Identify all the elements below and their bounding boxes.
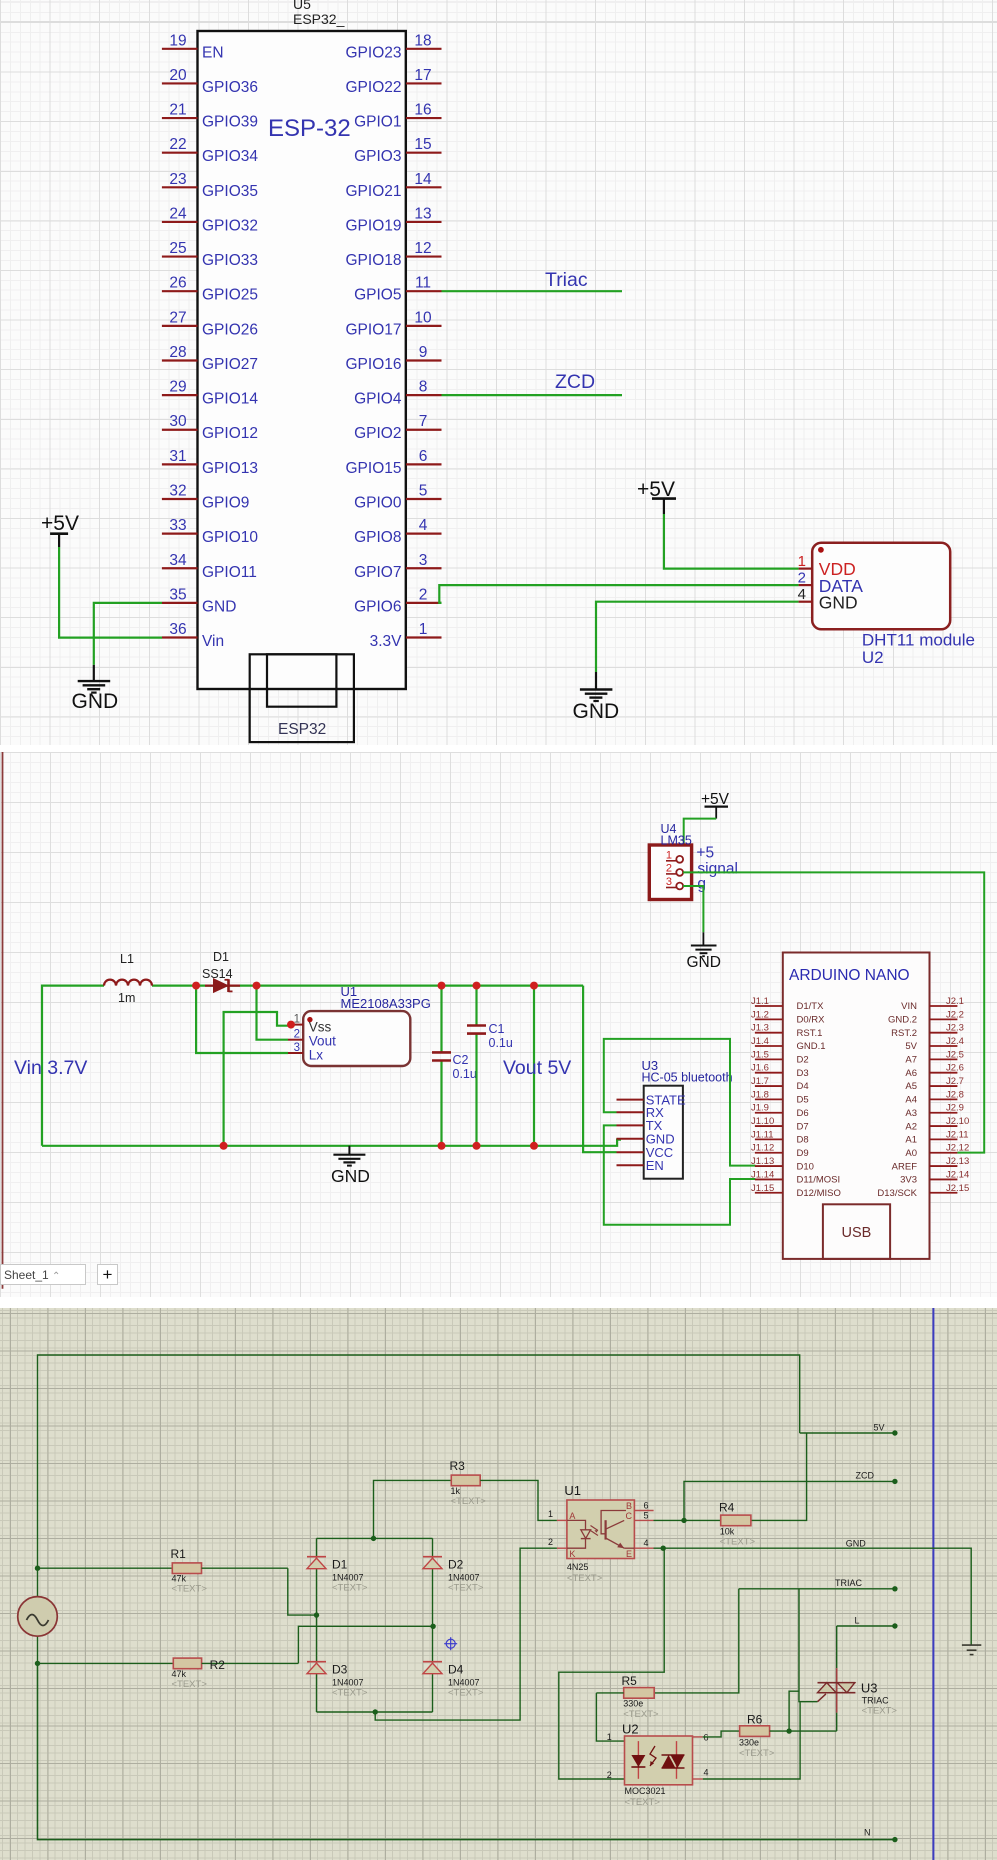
svg-text:GND: GND xyxy=(202,598,236,615)
svg-text:GPIO39: GPIO39 xyxy=(202,114,258,131)
pin 2 (GPIO6) xyxy=(354,586,441,615)
U4 value LM35 xyxy=(661,834,692,848)
sheet border line (blue, right) xyxy=(932,1308,934,1860)
wire pin 35 GND to ground xyxy=(94,603,162,665)
wire +5V to pin 36 Vin xyxy=(59,547,162,638)
svg-text:EN: EN xyxy=(646,1158,664,1173)
U1 pin 2 K xyxy=(548,1537,575,1559)
junction dot xyxy=(253,982,261,990)
svg-text:J1.8: J1.8 xyxy=(751,1089,769,1100)
wire bridge bottom xyxy=(317,1711,433,1713)
chip value ESP32_ xyxy=(293,11,345,27)
arduino pin J1.11 (D8) xyxy=(751,1129,809,1145)
pin 5 (GPIO0) xyxy=(354,482,441,511)
U2 internal LED xyxy=(631,1741,645,1779)
svg-text:17: 17 xyxy=(414,67,431,84)
arduino pin J2.4 (5V) xyxy=(905,1036,964,1052)
power symbol +5V (left) xyxy=(41,512,79,547)
svg-text:GPIO11: GPIO11 xyxy=(202,564,257,581)
DHT11 pin 1 VDD xyxy=(798,553,856,579)
DHT11 module U2 body xyxy=(812,543,950,630)
svg-text:25: 25 xyxy=(169,240,186,257)
wire R1 to bridge node xyxy=(288,1568,317,1615)
svg-text:1m: 1m xyxy=(118,991,135,1005)
U2 pin 2 xyxy=(607,1770,612,1780)
svg-text:A6: A6 xyxy=(905,1068,917,1079)
svg-text:J1.10: J1.10 xyxy=(751,1116,774,1127)
svg-text:VIN: VIN xyxy=(901,1001,917,1012)
U2 pin 6 xyxy=(693,1733,709,1743)
wire U1 Vout to output rail xyxy=(257,986,289,1040)
net label ZCD xyxy=(856,1471,875,1481)
bluetooth U3 HC-05 body xyxy=(644,1086,683,1179)
junction dot xyxy=(438,982,446,990)
svg-text:RST.1: RST.1 xyxy=(797,1028,823,1039)
svg-text:D3: D3 xyxy=(332,1663,348,1677)
wire GND net from U1 E xyxy=(654,1548,972,1645)
U4 pin 3 xyxy=(666,876,683,889)
svg-text:LM35: LM35 xyxy=(661,834,692,848)
svg-text:<TEXT>: <TEXT> xyxy=(567,1573,603,1584)
U1 pin 4 E xyxy=(626,1538,654,1559)
origin marker xyxy=(444,1637,457,1650)
pin 32 (GPIO9) xyxy=(162,482,249,511)
svg-text:3.3V: 3.3V xyxy=(370,633,403,650)
svg-text:J2.4: J2.4 xyxy=(946,1036,964,1047)
svg-text:<TEXT>: <TEXT> xyxy=(332,1688,368,1699)
svg-text:6: 6 xyxy=(644,1500,649,1510)
ground symbol (DHT11) xyxy=(573,672,620,723)
svg-text:ME2108A33PG: ME2108A33PG xyxy=(341,996,431,1011)
pin 34 (GPIO11) xyxy=(162,552,257,581)
svg-text:GND: GND xyxy=(573,700,620,723)
svg-text:GPIO3: GPIO3 xyxy=(354,148,401,165)
svg-text:Vout 5V: Vout 5V xyxy=(503,1057,571,1079)
diode D3 1N4007 xyxy=(307,1662,368,1699)
svg-text:28: 28 xyxy=(169,344,186,361)
U3 value TRIAC xyxy=(862,1696,890,1706)
svg-text:1N4007: 1N4007 xyxy=(332,1573,364,1583)
svg-text:23: 23 xyxy=(169,171,186,188)
pin 21 (GPIO39) xyxy=(162,102,258,131)
svg-text:J1.1: J1.1 xyxy=(751,996,769,1007)
svg-text:29: 29 xyxy=(169,379,186,396)
net label TRIAC xyxy=(835,1578,863,1588)
pin 27 (GPIO26) xyxy=(162,309,258,338)
svg-text:36: 36 xyxy=(169,621,186,638)
svg-text:U2: U2 xyxy=(622,1722,639,1737)
op-amp U5 ESP32 chip body xyxy=(198,31,406,689)
junction dot xyxy=(661,1546,666,1551)
U4 reference label xyxy=(661,822,677,836)
svg-text:ESP32_: ESP32_ xyxy=(293,11,345,27)
arduino pin J1.2 (D0/RX) xyxy=(751,1009,825,1025)
pin 20 (GPIO36) xyxy=(162,67,258,96)
svg-text:4N25: 4N25 xyxy=(567,1562,589,1572)
svg-text:GPIO36: GPIO36 xyxy=(202,79,258,96)
svg-text:GPIO32: GPIO32 xyxy=(202,217,258,234)
AC source V1 xyxy=(18,1568,58,1663)
svg-text:<TEXT>: <TEXT> xyxy=(172,1679,208,1690)
svg-text:D6: D6 xyxy=(797,1108,809,1119)
arduino pin J1.8 (D5) xyxy=(751,1089,809,1105)
svg-text:19: 19 xyxy=(169,32,186,49)
svg-text:1k: 1k xyxy=(451,1486,461,1496)
wire U1 C node to R4 xyxy=(654,1519,721,1521)
pin 19 (EN) xyxy=(162,32,224,61)
svg-text:2: 2 xyxy=(798,570,806,587)
wire DATA from pin 2 GPIO6 to DHT11 xyxy=(439,585,798,603)
DHT11 pin 4 GND xyxy=(798,586,858,612)
arduino USB box xyxy=(823,1204,890,1259)
junction dot xyxy=(287,1021,295,1029)
arduino pin J1.7 (D4) xyxy=(751,1076,809,1092)
svg-text:A1: A1 xyxy=(905,1135,917,1146)
svg-text:GPIO14: GPIO14 xyxy=(202,391,258,408)
svg-text:<TEXT>: <TEXT> xyxy=(172,1584,208,1595)
wire gate net vertical xyxy=(798,1589,800,1703)
svg-text:<TEXT>: <TEXT> xyxy=(448,1583,484,1594)
chip label ESP-32 xyxy=(268,115,351,142)
junction dot xyxy=(892,1623,897,1628)
label DHT11 module xyxy=(862,631,975,650)
svg-text:R3: R3 xyxy=(450,1459,466,1473)
wire gate to triac xyxy=(799,1701,818,1703)
svg-text:GND: GND xyxy=(72,690,119,713)
svg-text:<TEXT>: <TEXT> xyxy=(448,1688,484,1699)
svg-text:J2.3: J2.3 xyxy=(946,1023,964,1034)
wire HC-05 TX loop to D11 xyxy=(604,1125,756,1224)
U3 pin GND xyxy=(617,1132,675,1147)
svg-text:GPIO13: GPIO13 xyxy=(202,460,258,477)
svg-text:1: 1 xyxy=(548,1509,553,1519)
svg-text:26: 26 xyxy=(169,275,186,292)
capacitor C1 xyxy=(467,986,513,1146)
svg-text:J1.9: J1.9 xyxy=(751,1103,769,1114)
U4 pin 1 xyxy=(666,849,683,862)
arduino pin J2.10 (A2) xyxy=(905,1116,969,1132)
junction dot xyxy=(314,1612,319,1617)
svg-text:ESP-32: ESP-32 xyxy=(268,115,351,142)
svg-text:8: 8 xyxy=(419,379,428,396)
svg-text:J2.15: J2.15 xyxy=(946,1183,969,1194)
net label 5V xyxy=(874,1423,885,1433)
svg-text:J2.13: J2.13 xyxy=(946,1156,969,1167)
resistor R1 xyxy=(38,1547,288,1595)
arduino pin J1.5 (D2) xyxy=(751,1049,809,1065)
wire R5 to U2 pin 1 xyxy=(596,1693,624,1741)
svg-text:22: 22 xyxy=(169,136,186,153)
svg-text:GPIO6: GPIO6 xyxy=(354,598,401,615)
net label g xyxy=(697,876,706,893)
junction dot xyxy=(35,1566,40,1571)
svg-text:Vss: Vss xyxy=(309,1020,332,1035)
U1 value 4N25 xyxy=(567,1562,589,1572)
triac U3 xyxy=(818,1668,856,1713)
U2 internal triac xyxy=(662,1741,685,1779)
wire DHT11 GND to ground xyxy=(596,602,799,672)
junction dot xyxy=(681,1518,686,1523)
svg-text:C: C xyxy=(626,1511,633,1521)
wire R3 to U1 pin 1 xyxy=(480,1480,557,1520)
ground symbol (buck) xyxy=(331,1146,370,1186)
pin 16 (GPIO1) xyxy=(354,102,441,131)
svg-text:1N4007: 1N4007 xyxy=(332,1678,364,1688)
wire R2 to bridge node xyxy=(298,1626,433,1663)
svg-text:<TEXT>: <TEXT> xyxy=(739,1748,775,1759)
pin 35 (GND) xyxy=(162,586,237,615)
U2 pin 4 xyxy=(693,1768,709,1780)
svg-text:R2: R2 xyxy=(210,1658,226,1672)
svg-text:J1.3: J1.3 xyxy=(751,1023,769,1034)
resistor R4 xyxy=(719,1501,756,1548)
svg-text:Vin 3.7V: Vin 3.7V xyxy=(14,1057,87,1079)
svg-text:5: 5 xyxy=(419,482,428,499)
svg-text:D7: D7 xyxy=(797,1121,809,1132)
svg-text:<TEXT>: <TEXT> xyxy=(451,1496,487,1507)
svg-text:C1: C1 xyxy=(489,1022,505,1036)
svg-text:A4: A4 xyxy=(905,1095,917,1106)
svg-text:2: 2 xyxy=(419,586,428,603)
wire L to triac T2 xyxy=(836,1626,838,1668)
svg-text:g: g xyxy=(697,876,706,893)
U3 pin VCC xyxy=(617,1145,674,1160)
svg-text:2: 2 xyxy=(607,1770,612,1780)
svg-text:J1.15: J1.15 xyxy=(751,1183,774,1194)
arduino pin J2.2 (GND.2) xyxy=(888,1009,964,1025)
pin 10 (GPIO17) xyxy=(346,309,442,338)
svg-text:GND: GND xyxy=(331,1166,370,1186)
svg-text:15: 15 xyxy=(414,136,431,153)
svg-text:USB: USB xyxy=(842,1225,872,1241)
net label +5 xyxy=(696,845,714,862)
pin 8 (GPIO4) xyxy=(354,379,441,408)
svg-text:3: 3 xyxy=(294,1042,300,1054)
wire U1 Vss to ground rail xyxy=(224,1012,291,1146)
pin 12 (GPIO18) xyxy=(346,240,442,269)
pin 3 (GPIO7) xyxy=(354,552,441,581)
diode D1 SS14 xyxy=(202,950,240,992)
svg-text:ZCD: ZCD xyxy=(555,371,595,393)
svg-text:1N4007: 1N4007 xyxy=(448,1573,480,1583)
wire N net bottom rail xyxy=(38,1663,895,1839)
svg-text:330e: 330e xyxy=(623,1699,643,1709)
U1 pin 1 Vss xyxy=(291,1014,332,1035)
svg-text:J2.1: J2.1 xyxy=(946,996,964,1007)
svg-text:D2: D2 xyxy=(797,1055,809,1066)
optocoupler U1 4N25 body xyxy=(567,1500,635,1559)
svg-text:GPIO2: GPIO2 xyxy=(354,425,401,442)
svg-text:A: A xyxy=(569,1511,575,1521)
U1 pin 2 Vout xyxy=(288,1029,336,1049)
wire TRIAC to R5 xyxy=(654,1589,739,1693)
svg-text:2: 2 xyxy=(548,1537,553,1547)
svg-text:<TEXT>: <TEXT> xyxy=(623,1709,659,1720)
svg-text:U2: U2 xyxy=(862,648,884,667)
wire AC line top rail xyxy=(38,1355,800,1568)
svg-text:J2.9: J2.9 xyxy=(946,1103,964,1114)
wire VCC feed to HC-05 xyxy=(583,986,616,1153)
svg-text:L1: L1 xyxy=(120,952,134,966)
svg-text:ESP32: ESP32 xyxy=(278,721,326,738)
svg-text:1N4007: 1N4007 xyxy=(448,1678,480,1688)
svg-text:GPIO27: GPIO27 xyxy=(202,356,258,373)
resistor R6 xyxy=(739,1713,775,1760)
svg-text:330e: 330e xyxy=(739,1738,759,1748)
wire U1 Lx to switch node xyxy=(196,986,288,1053)
ground symbol (LM35) xyxy=(687,932,721,971)
arduino pin J1.1 (D1/TX) xyxy=(751,996,824,1012)
label U2 xyxy=(862,648,884,667)
arduino pin J2.7 (A5) xyxy=(905,1076,964,1092)
svg-text:30: 30 xyxy=(169,413,187,430)
svg-text:1: 1 xyxy=(798,553,806,570)
svg-text:+5V: +5V xyxy=(41,512,79,535)
svg-text:D1/TX: D1/TX xyxy=(797,1001,825,1012)
svg-text:21: 21 xyxy=(169,102,186,119)
svg-text:D4: D4 xyxy=(448,1663,464,1677)
svg-text:3: 3 xyxy=(666,876,672,888)
svg-text:ARDUINO NANO: ARDUINO NANO xyxy=(789,967,910,984)
junction dot xyxy=(192,982,200,990)
sheet border line (left) xyxy=(2,752,4,1289)
U3 pin RX xyxy=(617,1105,665,1120)
arduino pin J2.12 (A0) xyxy=(905,1143,969,1159)
pin 26 (GPIO25) xyxy=(162,275,258,304)
ESP32 module outer box xyxy=(250,654,354,742)
svg-text:18: 18 xyxy=(414,32,431,49)
svg-text:10k: 10k xyxy=(720,1527,735,1537)
svg-text:D11/MOSI: D11/MOSI xyxy=(797,1175,841,1186)
U1 pin 1 A xyxy=(548,1509,575,1521)
svg-text:5V: 5V xyxy=(874,1423,885,1433)
net label signal xyxy=(697,861,738,878)
svg-text:D9: D9 xyxy=(797,1148,809,1159)
optotriac U2 MOC3021 body xyxy=(625,1736,693,1785)
svg-text:TRIAC: TRIAC xyxy=(862,1696,890,1706)
svg-text:13: 13 xyxy=(414,205,431,222)
svg-text:4: 4 xyxy=(644,1538,649,1548)
svg-text:D12/MISO: D12/MISO xyxy=(797,1188,841,1199)
pin 17 (GPIO22) xyxy=(346,67,442,96)
svg-text:GPIO9: GPIO9 xyxy=(202,494,249,511)
svg-text:AREF: AREF xyxy=(892,1161,918,1172)
svg-text:9: 9 xyxy=(419,344,428,361)
svg-text:J1.14: J1.14 xyxy=(751,1169,774,1180)
pin 7 (GPIO2) xyxy=(354,413,441,442)
svg-text:+5: +5 xyxy=(696,845,714,862)
resistor R5 xyxy=(596,1674,659,1720)
svg-text:RST.2: RST.2 xyxy=(891,1028,917,1039)
svg-text:4: 4 xyxy=(419,517,428,534)
U3 reference label xyxy=(861,1681,878,1696)
pin 29 (GPIO14) xyxy=(162,379,258,408)
svg-text:N: N xyxy=(864,1828,871,1838)
U3 pin EN xyxy=(617,1158,664,1173)
wire +5V to DHT11 VDD xyxy=(664,514,799,569)
arduino pin J2.5 (A7) xyxy=(905,1049,964,1065)
svg-text:E: E xyxy=(626,1549,632,1559)
svg-text:Triac: Triac xyxy=(545,269,588,291)
junction dot xyxy=(892,1837,897,1842)
U1 pin 5 C xyxy=(626,1511,654,1521)
svg-text:4: 4 xyxy=(704,1768,709,1778)
net label GND xyxy=(846,1538,867,1548)
pin 18 (GPIO23) xyxy=(346,32,442,61)
svg-text:D10: D10 xyxy=(797,1161,814,1172)
svg-text:GPIO34: GPIO34 xyxy=(202,148,258,165)
svg-text:0.1u: 0.1u xyxy=(453,1067,477,1081)
svg-text:34: 34 xyxy=(169,552,187,569)
resistor R3 xyxy=(374,1459,487,1538)
U3 value HC-05 bluetooth xyxy=(642,1071,733,1085)
svg-text:D1: D1 xyxy=(332,1558,348,1572)
U2 internal zigzag arrow xyxy=(650,1746,656,1766)
net label Vout 5V xyxy=(503,1057,571,1079)
arduino pin J2.15 (D13/SCK) xyxy=(877,1183,969,1199)
svg-text:D2: D2 xyxy=(448,1558,464,1572)
pin 22 (GPIO34) xyxy=(162,136,258,165)
svg-text:1: 1 xyxy=(666,849,672,861)
svg-text:5: 5 xyxy=(644,1511,649,1521)
svg-text:GPIO10: GPIO10 xyxy=(202,529,258,546)
pin 1 (3.3V) xyxy=(370,621,442,650)
U1 internal photon arrows xyxy=(591,1526,599,1536)
svg-text:GPIO26: GPIO26 xyxy=(202,321,258,338)
junction dot xyxy=(438,1142,446,1150)
wire bridge top xyxy=(317,1537,433,1539)
svg-text:J1.4: J1.4 xyxy=(751,1036,769,1047)
junction dot xyxy=(371,1536,376,1541)
net label ZCD xyxy=(555,371,595,393)
svg-text:L: L xyxy=(855,1616,860,1626)
U3 pin STATE xyxy=(617,1092,686,1107)
arduino pin J2.6 (A6) xyxy=(905,1063,964,1079)
svg-text:7: 7 xyxy=(419,413,428,430)
pin 6 (GPIO15) xyxy=(346,448,442,477)
svg-text:31: 31 xyxy=(169,448,186,465)
svg-text:GPIO18: GPIO18 xyxy=(346,252,402,269)
svg-text:U1: U1 xyxy=(564,1483,581,1498)
svg-text:U3: U3 xyxy=(861,1681,878,1696)
U1 pin 3 Lx xyxy=(288,1042,323,1063)
power symbol +5V (DHT11) xyxy=(637,478,676,514)
svg-text:J1.6: J1.6 xyxy=(751,1063,769,1074)
regulator U1 ME2108A33PG body xyxy=(303,1011,410,1066)
U1 reference label xyxy=(341,984,358,999)
svg-text:GPIO4: GPIO4 xyxy=(354,391,402,408)
wire bridge right leg xyxy=(432,1538,434,1712)
svg-text:A5: A5 xyxy=(905,1081,917,1092)
USB label xyxy=(842,1225,872,1241)
svg-text:<TEXT>: <TEXT> xyxy=(862,1706,898,1717)
svg-text:47k: 47k xyxy=(172,1574,187,1584)
junction dot xyxy=(786,1728,791,1733)
arduino pin J2.1 (VIN) xyxy=(901,996,964,1012)
svg-text:J2.12: J2.12 xyxy=(946,1143,969,1154)
pin 24 (GPIO32) xyxy=(162,205,258,234)
svg-text:R5: R5 xyxy=(622,1674,638,1688)
wire TRIAC net xyxy=(739,1588,895,1590)
svg-text:D3: D3 xyxy=(797,1068,809,1079)
svg-text:GPIO12: GPIO12 xyxy=(202,425,258,442)
ground symbol (proteus) xyxy=(962,1645,981,1655)
pin 11 (GPIO5) xyxy=(354,275,441,304)
arduino pin J1.3 (RST.1) xyxy=(751,1023,822,1039)
svg-text:J2.5: J2.5 xyxy=(946,1049,964,1060)
sensor U4 LM35 body xyxy=(649,845,691,900)
wire ZCD net from pin 8 GPIO4 xyxy=(442,394,623,396)
